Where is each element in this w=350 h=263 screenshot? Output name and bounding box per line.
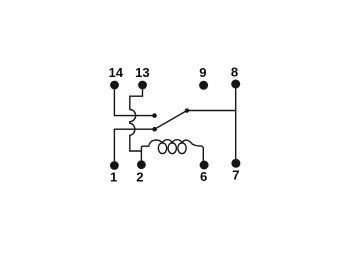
svg-text:2: 2	[136, 169, 143, 184]
svg-text:8: 8	[231, 64, 238, 79]
svg-text:14: 14	[109, 65, 124, 80]
svg-text:6: 6	[200, 169, 207, 184]
svg-text:1: 1	[110, 169, 117, 184]
svg-text:13: 13	[135, 65, 150, 80]
svg-text:9: 9	[199, 65, 206, 80]
svg-text:7: 7	[232, 168, 239, 183]
